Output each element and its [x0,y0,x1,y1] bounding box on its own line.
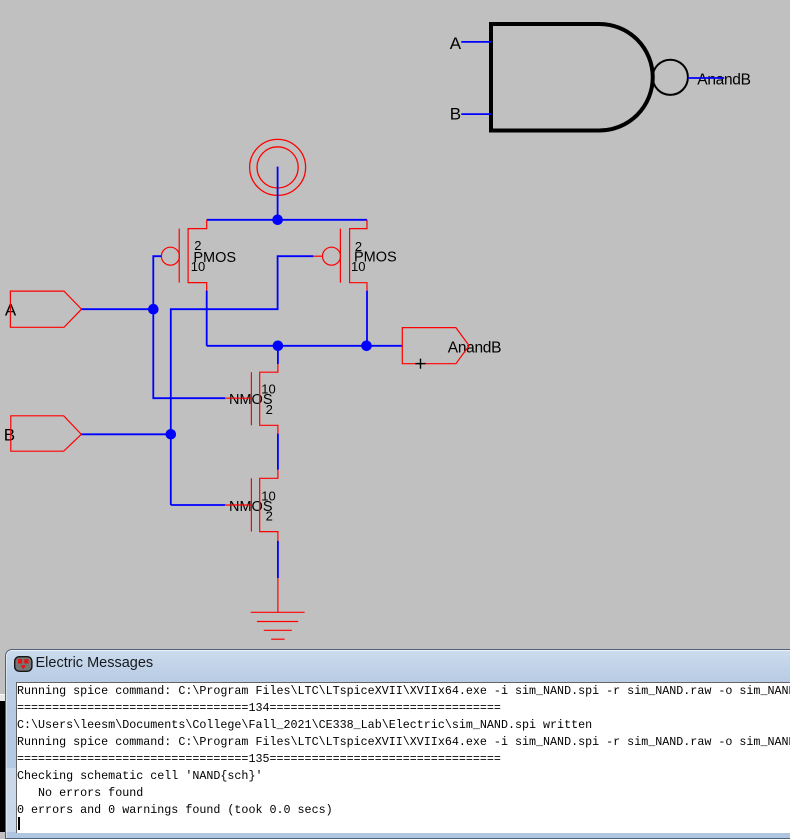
svg-text:A: A [450,34,462,53]
svg-text:AnandB: AnandB [697,72,750,89]
svg-text:B: B [4,426,15,445]
svg-text:10: 10 [261,488,275,503]
svg-text:AnandB: AnandB [448,340,501,357]
svg-text:B: B [450,105,461,124]
svg-text:10: 10 [351,259,365,274]
svg-text:10: 10 [261,381,275,396]
svg-text:2: 2 [266,402,273,417]
svg-text:2: 2 [266,509,273,524]
svg-text:10: 10 [191,259,205,274]
